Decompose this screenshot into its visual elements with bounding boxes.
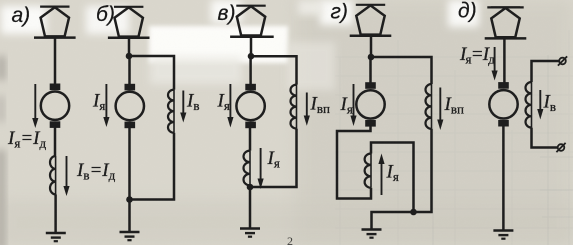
wire coil to ground (54, 194, 57, 233)
motor M2 (armature) (116, 84, 144, 128)
wire to ground v (249, 185, 252, 228)
arrow Iя circuit v (229, 84, 231, 118)
ground circuit b (120, 232, 140, 240)
wire node to shunt branch (129, 56, 174, 90)
node junction top g (368, 54, 375, 61)
node junction top v (248, 53, 255, 60)
faint bleed-through grid (433, 55, 573, 245)
arrow Iя circuit b (105, 84, 107, 118)
wire machine bottom to left loop g (337, 126, 371, 199)
pantograph (current collector) circuit a (34, 7, 76, 38)
wire machine to coil (54, 128, 57, 157)
node junction bottom b (126, 196, 133, 203)
arrow Iя=Iд feed d (494, 47, 496, 72)
pantograph circuit d (485, 7, 527, 38)
wire coil to bottom terminal d (532, 128, 558, 148)
wire machine to ground (128, 128, 131, 233)
arrow Iв circuit b (182, 91, 184, 114)
ground circuit a (46, 233, 66, 241)
wire shunt branch down to node v (250, 129, 297, 187)
series field coil Lв circuit a (50, 156, 56, 194)
wire node to shunt branch g (371, 57, 432, 84)
ground circuit v (240, 229, 260, 237)
motor M4 (armature) (356, 82, 384, 126)
paper grain (0, 0, 1, 1)
node junction top b (126, 53, 133, 60)
arrow Iя series v (260, 148, 262, 180)
arrow Iвп circuit g (439, 88, 441, 121)
pantograph circuit g (350, 5, 392, 36)
white patch top-left (1, 6, 46, 34)
wire shunt coil down and to node (130, 133, 175, 200)
node junction bottom g (410, 209, 417, 216)
wire pantograph to machine d (503, 39, 506, 83)
wire bottom line g (372, 129, 432, 230)
wire pantograph to node (250, 37, 253, 56)
wire terminal to coil d (532, 61, 559, 82)
terminal top d (558, 56, 567, 65)
wire pantograph to node (128, 39, 131, 56)
arrow Iя up circuit g (381, 163, 383, 195)
pantograph circuit b (108, 7, 150, 38)
motor M1 (armature) (41, 84, 69, 128)
motor M5 (armature) (489, 82, 517, 126)
wire pantograph to machine (54, 39, 57, 85)
wire node to machine v (249, 56, 252, 84)
arrow Iвп circuit v (306, 93, 308, 117)
shunt field coil Lв circuit b (168, 90, 174, 133)
arrow current Iя (34, 84, 36, 119)
wire machine to series coil v (249, 128, 252, 151)
wire pantograph to node (370, 36, 373, 57)
white patch top-middle (149, 26, 288, 63)
shunt field coil Lвп circuit g (425, 84, 431, 129)
arrow Iя circuit g (353, 84, 355, 117)
wire node to shunt branch v (251, 56, 297, 84)
wire node to machine g (369, 57, 372, 83)
series field coil Lя circuit v (244, 151, 251, 186)
ground circuit d (493, 231, 513, 239)
left edge marks (0, 56, 5, 80)
node junction bottom v (247, 184, 254, 191)
wire coil top to inner rect g (371, 143, 414, 213)
motor M3 (armature) (236, 84, 264, 128)
ground circuit g (362, 230, 382, 238)
arrow Iв (66, 156, 68, 187)
wire machine to ground d (502, 126, 505, 231)
terminal bottom d (556, 143, 565, 152)
pantograph circuit v (230, 6, 272, 37)
shunt field coil Lвп circuit v (291, 85, 297, 129)
wire node to machine (128, 56, 131, 84)
series field coil Lя circuit g (reversed) (365, 154, 371, 188)
separate field coil Lв circuit d (526, 82, 532, 128)
arrow Iв circuit d (539, 90, 541, 110)
